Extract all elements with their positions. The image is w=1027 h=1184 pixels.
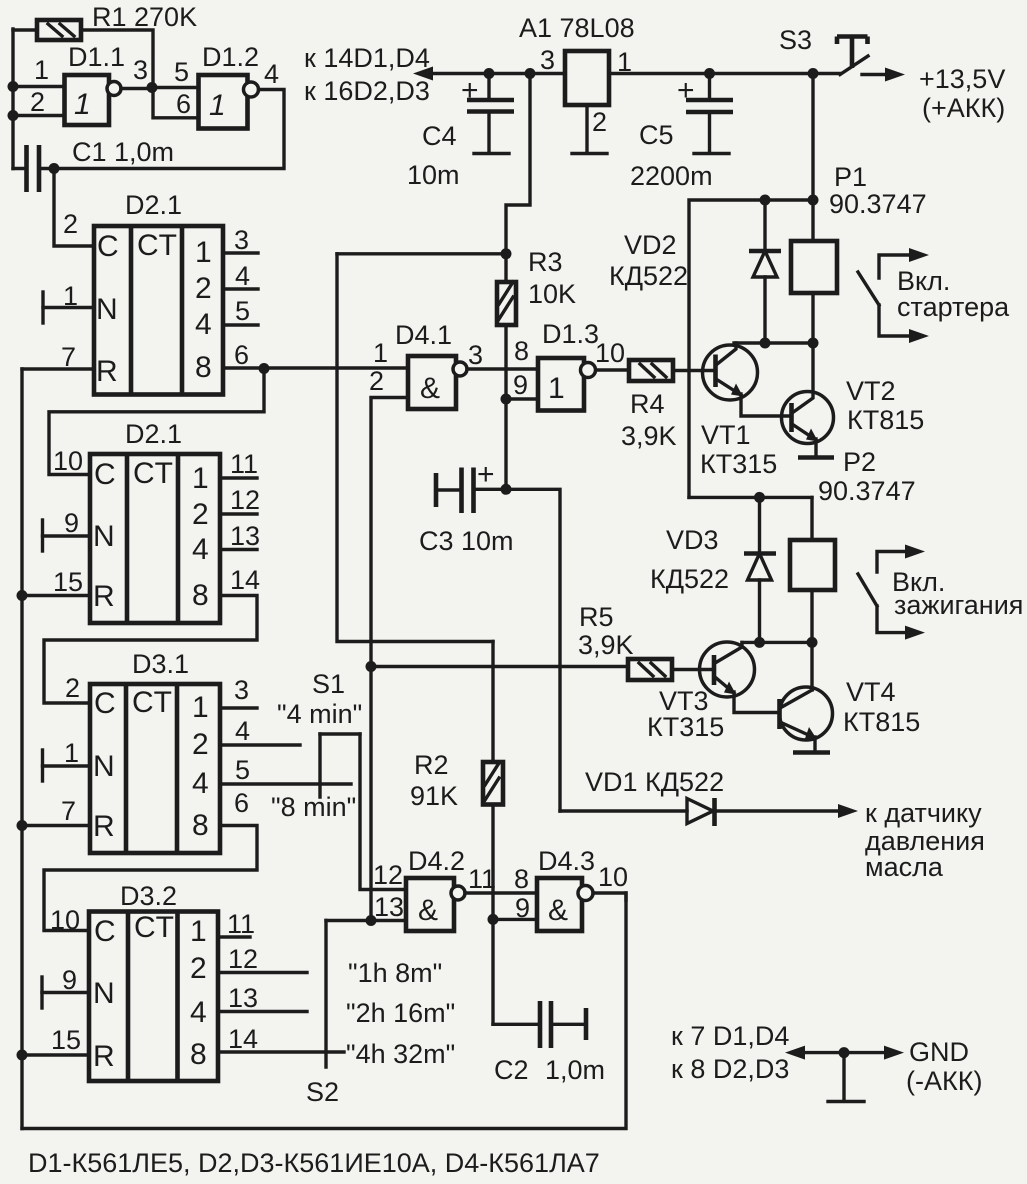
svg-text:8: 8	[195, 351, 212, 384]
N input terminal bar	[40, 977, 43, 1008]
svg-text:12: 12	[228, 944, 258, 974]
svg-text:VT2: VT2	[846, 376, 896, 406]
svg-text:4: 4	[264, 59, 279, 89]
wire collector rail VT1	[734, 341, 813, 344]
svg-text:VD1 КД522: VD1 КД522	[585, 767, 724, 797]
svg-text:8: 8	[190, 1038, 207, 1071]
svg-text:R1 270K: R1 270K	[92, 2, 197, 32]
svg-text:13: 13	[228, 983, 258, 1013]
node P2 bottom	[807, 637, 818, 648]
svg-text:6: 6	[176, 89, 191, 119]
wire output pin6 to D3.2 pin C	[44, 826, 257, 931]
arrowhead to 14D1	[413, 67, 433, 81]
diode VD3	[744, 497, 776, 642]
wire D1.3 output to R4	[596, 368, 629, 371]
svg-text:P1: P1	[834, 162, 867, 192]
svg-text:R2: R2	[414, 750, 449, 780]
resistor R1	[37, 20, 81, 40]
svg-text:(+АКК): (+АКК)	[922, 93, 1005, 123]
GND terminal	[828, 1053, 864, 1102]
node pin1 junction	[8, 81, 19, 92]
svg-text:3,9K: 3,9K	[621, 421, 677, 451]
wire N pin	[43, 764, 91, 767]
svg-text:R: R	[93, 810, 115, 843]
svg-text:КТ315: КТ315	[700, 449, 777, 479]
svg-text:10m: 10m	[407, 160, 460, 190]
node C5	[704, 68, 715, 79]
svg-text:3: 3	[468, 340, 483, 370]
wire N pin	[43, 306, 94, 309]
diode VD2	[749, 200, 781, 343]
svg-text:1: 1	[195, 236, 212, 269]
svg-text:15: 15	[51, 1025, 81, 1055]
svg-text:&: &	[548, 894, 568, 927]
resistor R4	[629, 360, 673, 381]
svg-text:N: N	[96, 293, 118, 326]
svg-text:11: 11	[468, 864, 496, 894]
svg-text:D4.3: D4.3	[538, 846, 595, 876]
svg-text:КД522: КД522	[609, 261, 688, 291]
svg-text:КД522: КД522	[650, 564, 729, 594]
wire pin9	[493, 918, 537, 921]
node P1 top	[808, 195, 819, 206]
svg-text:11: 11	[227, 909, 255, 939]
svg-text:КТ815: КТ815	[847, 405, 924, 435]
wire A1 pin2 ground	[572, 105, 607, 154]
svg-text:GND: GND	[909, 1037, 969, 1067]
counter D3.1	[90, 684, 220, 853]
wire P2 top rail	[689, 496, 812, 499]
switch S2	[324, 921, 327, 1068]
svg-text:90.3747: 90.3747	[829, 189, 927, 219]
svg-text:4: 4	[195, 308, 212, 341]
node S3	[808, 68, 819, 79]
svg-text:90.3747: 90.3747	[818, 476, 916, 506]
node left rail R	[17, 590, 28, 601]
svg-text:к 16D2,D3: к 16D2,D3	[304, 76, 430, 106]
diode VD1	[560, 798, 858, 826]
wire VD2 top rail	[689, 200, 813, 497]
svg-text:+: +	[461, 74, 479, 107]
svg-text:9: 9	[515, 893, 530, 923]
svg-text:R: R	[93, 1040, 115, 1073]
wire left rail to R1	[13, 28, 37, 31]
svg-text:91K: 91K	[410, 781, 458, 811]
svg-text:10: 10	[50, 905, 80, 935]
N input terminal bar	[41, 292, 44, 323]
wire output pin13	[218, 1010, 307, 1013]
transistor VT2	[782, 343, 835, 458]
svg-text:3: 3	[234, 675, 249, 705]
wire left rail top	[11, 29, 14, 169]
node D4.1 pin2 riser joins pin13	[366, 915, 377, 926]
wire R pin	[22, 1053, 89, 1056]
svg-text:стартера: стартера	[897, 292, 1010, 322]
svg-text:VD2: VD2	[624, 230, 677, 260]
svg-text:VT4: VT4	[846, 677, 896, 707]
wire N pin	[42, 991, 89, 994]
capacitor C1	[13, 145, 39, 192]
svg-text:5: 5	[235, 755, 250, 785]
svg-text:+: +	[677, 74, 695, 107]
svg-text:10: 10	[53, 446, 83, 476]
node C4	[484, 68, 495, 79]
svg-text:S2: S2	[306, 1077, 339, 1107]
svg-text:2: 2	[63, 209, 78, 239]
svg-text:10: 10	[598, 862, 628, 892]
svg-text:N: N	[93, 520, 115, 553]
svg-text:11: 11	[230, 449, 258, 479]
svg-text:3,9K: 3,9K	[578, 630, 634, 660]
wire arrow +13,5V	[862, 73, 890, 76]
capacitor C5	[686, 74, 733, 154]
contact Вкл. стартера	[858, 248, 929, 343]
svg-text:10: 10	[595, 338, 625, 368]
svg-text:3: 3	[234, 225, 249, 255]
svg-text:1: 1	[192, 691, 209, 724]
svg-text:12: 12	[373, 860, 403, 890]
gate D1.3	[538, 358, 596, 411]
svg-text:C: C	[94, 915, 116, 948]
node VD3 top	[754, 492, 765, 503]
svg-text:D1.1: D1.1	[68, 42, 125, 72]
counter D2.1 (first)	[94, 226, 223, 395]
wire D4.3 output down to bottom rail	[593, 893, 626, 900]
wire S3 node down to P1	[811, 74, 814, 242]
svg-text:к 7 D1,D4: к 7 D1,D4	[671, 1021, 789, 1051]
svg-text:5: 5	[174, 57, 189, 87]
wire output pin5 to S1	[220, 782, 351, 785]
svg-text:15: 15	[53, 567, 83, 597]
svg-text:+: +	[477, 458, 495, 491]
svg-text:VD3: VD3	[666, 525, 719, 555]
wire output pin12	[220, 512, 257, 515]
svg-text:1: 1	[190, 915, 207, 948]
svg-text:6: 6	[234, 788, 249, 818]
arrowhead +13,5V	[885, 68, 905, 82]
wire output pin11	[220, 476, 257, 479]
switch S3	[837, 37, 868, 75]
svg-text:8: 8	[192, 579, 209, 612]
svg-text:R: R	[96, 355, 118, 388]
svg-text:2: 2	[195, 272, 212, 305]
svg-text:"2h 16m": "2h 16m"	[346, 998, 455, 1028]
svg-text:4: 4	[235, 261, 250, 291]
node D1.3 pin9	[501, 394, 512, 405]
node GND	[839, 1047, 850, 1058]
wire N pin	[43, 534, 91, 537]
wire vertical to S1 row	[337, 254, 493, 642]
svg-text:(-АКК): (-АКК)	[906, 1066, 982, 1096]
svg-text:2: 2	[369, 366, 384, 396]
N input terminal bar	[41, 520, 44, 551]
wire output pin13	[220, 548, 257, 551]
left rail vertical	[20, 369, 23, 1129]
wire D1.1 pin2	[13, 114, 65, 117]
node pin2 junction	[8, 110, 19, 121]
svg-text:C: C	[97, 230, 119, 263]
svg-text:C5: C5	[639, 120, 674, 150]
contact Вкл. зажигания	[858, 545, 925, 640]
wire output pin11	[218, 935, 250, 938]
node R2 column pin9	[488, 914, 499, 925]
svg-text:R: R	[93, 580, 115, 613]
svg-text:9: 9	[64, 508, 79, 538]
wire output pin6 to D4.1	[223, 366, 408, 369]
wire D4.1 pin2 riser	[371, 398, 408, 921]
svg-text:C4: C4	[422, 121, 457, 151]
resistor R2	[483, 642, 503, 1025]
wire output pin12	[218, 971, 307, 974]
svg-text:14: 14	[230, 565, 260, 595]
node VD2 bottom	[760, 338, 771, 349]
wire pin9	[506, 397, 538, 400]
wire output pin5	[223, 323, 258, 326]
svg-text:N: N	[93, 977, 115, 1010]
svg-text:VT1: VT1	[701, 420, 751, 450]
svg-text:5: 5	[235, 296, 250, 326]
svg-text:к датчику: к датчику	[865, 798, 982, 828]
wire collector rail VT3	[742, 641, 812, 644]
svg-text:N: N	[93, 750, 115, 783]
svg-text:1: 1	[192, 462, 209, 495]
wire R4 to VT1 base	[673, 369, 716, 372]
node P1 bottom	[808, 338, 819, 349]
wire branch to D4.1 column	[337, 252, 506, 255]
gate D1.2	[199, 75, 259, 129]
wire R pin	[22, 594, 90, 597]
gate D1.1	[65, 75, 122, 125]
svg-text:1,0m: 1,0m	[545, 1055, 605, 1085]
svg-text:1: 1	[64, 738, 79, 768]
capacitor C2	[493, 1001, 586, 1048]
svg-text:+13,5V: +13,5V	[919, 64, 1005, 94]
switch S1	[320, 734, 406, 890]
svg-text:D1.2: D1.2	[202, 42, 259, 72]
node VD2 top	[760, 195, 771, 206]
svg-text:D4.2: D4.2	[408, 846, 465, 876]
svg-text:C2: C2	[494, 1055, 529, 1085]
node pin6	[259, 363, 270, 374]
transistor VT1	[703, 343, 792, 416]
svg-text:8: 8	[514, 336, 529, 366]
wire R5 to VT3 base	[672, 668, 714, 671]
wire D4.1 output to D1.3 pin8	[467, 367, 538, 370]
svg-text:КТ815: КТ815	[843, 707, 920, 737]
bottom rail wire	[22, 893, 626, 1129]
svg-text:S3: S3	[779, 25, 812, 55]
svg-text:к 14D1,D4: к 14D1,D4	[304, 43, 430, 73]
svg-text:14: 14	[228, 1024, 258, 1054]
wire output pin3	[220, 706, 257, 709]
svg-text:8: 8	[192, 809, 209, 842]
svg-text:R5: R5	[579, 602, 614, 632]
wire output pin4	[223, 287, 258, 290]
capacitor C3	[436, 468, 506, 514]
wire R3 bottom	[504, 325, 507, 489]
wire R5 feed	[371, 665, 628, 668]
svg-text:13: 13	[374, 892, 404, 922]
svg-text:2: 2	[192, 728, 209, 761]
svg-text:9: 9	[62, 965, 77, 995]
svg-text:10K: 10K	[528, 279, 576, 309]
wire D1.1 pin1	[13, 85, 65, 88]
svg-text:"1h 8m": "1h 8m"	[348, 958, 442, 988]
wire P2 bottom	[810, 497, 813, 642]
regulator A1	[565, 51, 609, 105]
wire C3 node to VD1 column	[506, 489, 560, 811]
node R3 feed	[525, 68, 536, 79]
svg-text:12: 12	[230, 485, 260, 515]
wire output pin14 to D3.1 pin C	[44, 596, 257, 704]
svg-text:&: &	[418, 894, 438, 927]
svg-text:2: 2	[192, 498, 209, 531]
svg-text:"8 min": "8 min"	[271, 792, 356, 822]
node R3 top	[501, 248, 512, 259]
svg-text:C: C	[94, 458, 116, 491]
svg-text:D1-К561ЛЕ5, D2,D3-К561ИЕ10А, D: D1-К561ЛЕ5, D2,D3-К561ИЕ10А, D4-К561ЛА7	[28, 1148, 600, 1178]
relay coil P2	[790, 540, 835, 590]
svg-text:"4 min": "4 min"	[277, 699, 362, 729]
svg-text:R4: R4	[630, 389, 665, 419]
svg-text:C1 1,0m: C1 1,0m	[72, 137, 174, 167]
svg-text:зажигания: зажигания	[894, 590, 1023, 620]
capacitor C4	[467, 74, 514, 154]
svg-text:D4.1: D4.1	[395, 320, 452, 350]
wire D1.2 output loop to C1 line	[40, 90, 284, 169]
svg-text:D1.3: D1.3	[542, 319, 599, 349]
svg-text:R3: R3	[528, 247, 563, 277]
wire R1 right to node3	[81, 30, 153, 88]
svg-text:D2.1: D2.1	[125, 419, 182, 449]
wire R3 top feed with jog	[506, 74, 530, 255]
gate D4.1	[408, 356, 467, 409]
svg-text:C: C	[94, 687, 116, 720]
svg-text:1: 1	[34, 55, 49, 85]
wire +8V rail arrow left	[421, 72, 565, 75]
svg-text:2: 2	[592, 107, 607, 137]
wire node down to D1.2 pin6	[153, 88, 199, 118]
svg-text:3: 3	[540, 45, 555, 75]
svg-text:3: 3	[133, 55, 148, 85]
svg-text:к 8 D2,D3: к 8 D2,D3	[671, 1054, 789, 1084]
svg-text:S1: S1	[312, 669, 345, 699]
svg-text:1: 1	[74, 88, 91, 121]
svg-text:13: 13	[230, 521, 260, 551]
svg-text:2: 2	[65, 673, 80, 703]
svg-text:КТ315: КТ315	[647, 712, 724, 742]
relay coil P1	[791, 241, 837, 293]
svg-text:9: 9	[513, 370, 528, 400]
svg-text:&: &	[420, 372, 440, 405]
resistor R5	[628, 659, 672, 680]
svg-text:4: 4	[235, 716, 250, 746]
svg-text:масла: масла	[865, 852, 944, 882]
transistor VT3	[700, 642, 780, 713]
svg-text:8: 8	[514, 864, 529, 894]
svg-text:2: 2	[30, 87, 45, 117]
svg-text:2: 2	[190, 952, 207, 985]
svg-text:7: 7	[61, 796, 76, 826]
gate D4.3	[537, 878, 593, 931]
counter D2.1 (second)	[90, 454, 220, 623]
svg-text:CT: CT	[134, 911, 174, 944]
node left rail R	[17, 1050, 28, 1061]
wire P1 bottom	[811, 293, 814, 343]
node C1 output	[49, 163, 60, 174]
svg-text:6: 6	[234, 340, 249, 370]
node C3	[501, 484, 512, 495]
wire R pin	[22, 824, 90, 827]
wire node to D1.2 pin5	[152, 86, 199, 89]
svg-text:"4h 32m": "4h 32m"	[346, 1039, 455, 1069]
svg-text:4: 4	[192, 767, 209, 800]
wire D1.1 output to node	[121, 87, 152, 90]
svg-text:4: 4	[190, 996, 207, 1029]
gate D4.2	[406, 878, 465, 931]
svg-text:1: 1	[209, 89, 226, 122]
wire D4.2 output to D4.3 pin8	[465, 891, 537, 894]
svg-text:2200m: 2200m	[630, 161, 713, 191]
wire node to D2.1 pin C	[54, 169, 94, 247]
node VD3 bottom	[754, 637, 765, 648]
svg-text:1: 1	[373, 338, 388, 368]
svg-text:CT: CT	[137, 229, 177, 262]
GND double arrow	[785, 1046, 904, 1060]
svg-text:4: 4	[192, 533, 209, 566]
svg-text:CT: CT	[133, 457, 173, 490]
svg-text:A1 78L08: A1 78L08	[519, 13, 635, 43]
wire pin6 down to D2.1b pin C	[49, 369, 264, 475]
svg-text:D3.2: D3.2	[120, 881, 177, 911]
svg-text:1: 1	[548, 372, 565, 405]
svg-text:C3 10m: C3 10m	[419, 526, 514, 556]
wire output pin4 to S1	[220, 743, 300, 746]
counter D3.2	[89, 911, 218, 1081]
node left rail R	[17, 820, 28, 831]
wire S2 net to D4.2 pin13	[326, 919, 406, 922]
wire R pin to left rail	[22, 367, 94, 370]
wire output pin14 through S2	[218, 1050, 344, 1053]
svg-text:P2: P2	[843, 447, 876, 477]
node R5 feed	[366, 661, 377, 672]
svg-text:D3.1: D3.1	[132, 649, 189, 679]
N input terminal bar	[41, 750, 44, 781]
svg-text:D2.1: D2.1	[125, 190, 182, 220]
node D1.1 out	[147, 82, 158, 93]
svg-text:CT: CT	[132, 686, 172, 719]
transistor VT4	[780, 642, 833, 752]
resistor R3	[497, 254, 516, 325]
wire rail A1 to S3	[609, 72, 840, 75]
wire output pin3	[223, 251, 258, 254]
